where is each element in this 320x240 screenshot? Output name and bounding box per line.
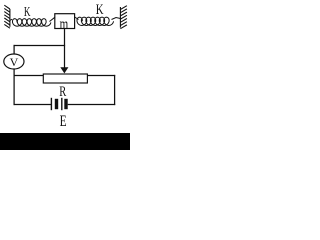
wire left frame lower — [13, 69, 15, 106]
wire top branch to voltmeter — [14, 45, 66, 47]
wire bottom left — [14, 104, 52, 106]
right wall — [120, 6, 127, 29]
svg-text:K: K — [96, 2, 104, 18]
battery E cell 2 negative plate — [64, 99, 67, 109]
wire from mass m to wiper — [64, 29, 66, 69]
wire left frame upper — [13, 45, 15, 55]
wire right frame — [114, 75, 116, 105]
svg-text:R: R — [59, 84, 66, 100]
voltmeter V — [4, 54, 24, 69]
battery E cell 2 positive plate — [61, 98, 63, 110]
svg-text:V: V — [10, 55, 19, 69]
battery E cell 1 negative plate — [55, 99, 58, 109]
potentiometer R box — [43, 74, 87, 83]
potentiometer wiper arrow — [60, 67, 68, 73]
svg-text:E: E — [60, 113, 67, 130]
wire to potentiometer left terminal — [14, 75, 43, 77]
battery E cell 1 positive plate — [50, 98, 52, 110]
spring K right — [75, 17, 121, 26]
wire potentiometer right terminal — [87, 75, 115, 77]
svg-text:K: K — [24, 5, 31, 20]
spring K left — [10, 17, 55, 26]
wire bottom right — [68, 104, 116, 106]
mass m box — [55, 14, 75, 29]
left wall — [4, 5, 10, 28]
